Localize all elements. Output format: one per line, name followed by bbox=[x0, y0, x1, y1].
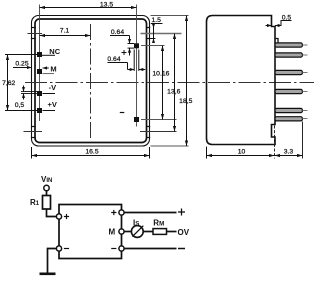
svg-text:RM: RM bbox=[153, 218, 164, 227]
resistor R1 bbox=[43, 196, 51, 210]
svg-text:7.1: 7.1 bbox=[60, 28, 70, 35]
pin +V leader bbox=[43, 110, 56, 112]
pin column line right bbox=[136, 5, 138, 127]
pin +V bbox=[37, 108, 42, 113]
label minus input bbox=[64, 248, 69, 250]
wire plus output bbox=[124, 212, 176, 214]
tab left-bottom bbox=[31, 127, 36, 138]
svg-text:+V: +V bbox=[48, 100, 57, 109]
dimension 18,5 bbox=[186, 16, 188, 147]
plus output terminal label bbox=[178, 209, 185, 216]
svg-text:OV: OV bbox=[178, 228, 190, 237]
converter box bbox=[59, 205, 122, 259]
meter Is needle bbox=[132, 226, 143, 237]
side view pin tails bbox=[303, 45, 308, 119]
resistor Rm bbox=[153, 229, 167, 235]
case inner outline bbox=[35, 19, 147, 143]
minus polarity mark bbox=[120, 112, 125, 114]
svg-text:13,6: 13,6 bbox=[167, 88, 180, 95]
side view body bbox=[207, 16, 276, 145]
terminal minus input bbox=[56, 246, 61, 251]
svg-text:M: M bbox=[50, 64, 56, 73]
ground bbox=[40, 272, 56, 275]
svg-text:13.5: 13.5 bbox=[100, 2, 113, 9]
tab left-top bbox=[31, 28, 36, 39]
dimension 13,6 bbox=[174, 34, 176, 132]
wire Is to Rm bbox=[143, 231, 152, 233]
dimension 13.5 bbox=[40, 6, 137, 9]
svg-text:10: 10 bbox=[238, 149, 246, 156]
pin NC bbox=[37, 52, 42, 57]
tab right-top bbox=[146, 28, 150, 39]
dimension 10 and 3.3 bbox=[207, 122, 303, 159]
wire VIN to R1 bbox=[46, 191, 48, 196]
terminal minus output bbox=[119, 246, 124, 251]
wire M to Is bbox=[124, 231, 131, 233]
svg-text:10.16: 10.16 bbox=[152, 71, 169, 78]
label minus output bbox=[111, 248, 116, 250]
svg-text:0,5: 0,5 bbox=[15, 102, 25, 109]
pin -V bbox=[37, 91, 42, 96]
label plus output bbox=[111, 210, 116, 215]
wire R1 to plus input bbox=[47, 209, 57, 217]
svg-text:7,62: 7,62 bbox=[2, 80, 15, 87]
meter Is bbox=[131, 226, 143, 238]
pin plus (right top) bbox=[134, 43, 139, 48]
pin column line left bbox=[39, 5, 41, 122]
plus polarity mark bbox=[122, 50, 127, 55]
side body step detail bbox=[275, 39, 278, 44]
tab right-top centerline bbox=[141, 33, 182, 35]
case outer outline bbox=[32, 16, 150, 147]
wire Rm to 0V bbox=[166, 231, 177, 233]
dimension 7.1 bbox=[40, 34, 91, 37]
horizontal centerline chain bbox=[25, 82, 314, 84]
pin minus (right bottom) bbox=[134, 117, 139, 122]
tab left-bottom centerline bbox=[24, 131, 43, 133]
extension lines right side bbox=[141, 16, 189, 147]
pin M bbox=[37, 69, 42, 74]
terminal plus output bbox=[119, 210, 124, 215]
svg-text:-V: -V bbox=[49, 83, 57, 92]
minus output terminal label bbox=[178, 248, 185, 250]
svg-text:0.25: 0.25 bbox=[15, 61, 28, 68]
label plus input bbox=[64, 214, 69, 219]
tab right-bottom centerline bbox=[140, 131, 177, 133]
pin M leader bbox=[43, 73, 55, 75]
dimension 10.16 bbox=[162, 46, 164, 120]
dimension 16.5 bbox=[32, 147, 150, 159]
svg-text:M: M bbox=[109, 228, 116, 237]
tab right-bottom bbox=[146, 127, 150, 138]
terminal plus input bbox=[56, 214, 61, 219]
side view pins bbox=[275, 43, 302, 121]
terminal M output bbox=[119, 229, 124, 234]
wire minus input to ground bbox=[48, 249, 57, 273]
svg-text:IS: IS bbox=[133, 218, 139, 227]
wire minus output bbox=[124, 248, 176, 250]
svg-text:NC: NC bbox=[49, 47, 60, 56]
pin NC leader bbox=[42, 54, 55, 56]
svg-text:18,5: 18,5 bbox=[179, 98, 192, 105]
pin -V leader bbox=[43, 93, 56, 95]
terminal VIN bbox=[44, 185, 49, 190]
svg-text:16.5: 16.5 bbox=[85, 149, 98, 156]
vertical centerline chain bbox=[90, 24, 92, 141]
tab left-top centerline bbox=[28, 33, 43, 35]
svg-text:3.3: 3.3 bbox=[284, 149, 294, 156]
